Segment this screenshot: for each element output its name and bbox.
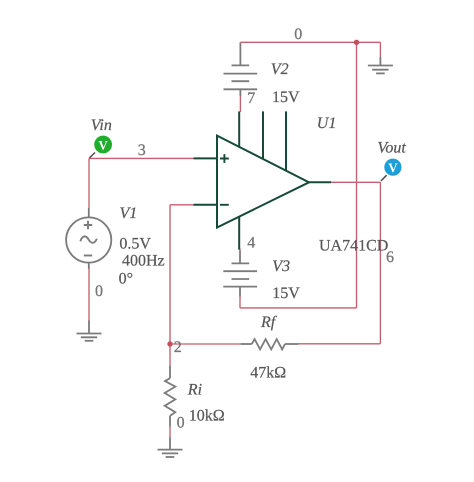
svg-text:U1: U1	[317, 115, 337, 132]
svg-text:15V: 15V	[272, 89, 300, 106]
resistor Ri	[165, 366, 176, 427]
svg-text:Ri: Ri	[187, 381, 202, 398]
probe Vout pointer	[381, 175, 387, 181]
svg-text:Vout: Vout	[377, 139, 406, 156]
probe Vout	[384, 159, 401, 176]
svg-text:Rf: Rf	[260, 314, 278, 331]
wire net 0 stub to top-right ground	[379, 42, 381, 58]
svg-text:V1: V1	[120, 205, 138, 222]
wire net 3 horizontal Vin to op-amp	[89, 157, 194, 159]
svg-text:0: 0	[294, 26, 302, 43]
wire net 2 vertical down	[169, 205, 171, 344]
svg-text:0: 0	[177, 415, 185, 432]
wire net 0 top horizontal	[240, 41, 380, 43]
svg-text:2: 2	[174, 339, 182, 356]
wire net 7 V2 to pin 7	[239, 95, 241, 112]
wire net 6 horizontal to Rf right	[298, 343, 380, 345]
battery V2	[224, 42, 258, 96]
wire net 6 vertical down	[379, 182, 381, 343]
wire net 2 from inverting input	[170, 204, 194, 206]
svg-text:47kΩ: 47kΩ	[250, 365, 286, 382]
svg-text:UA741CD: UA741CD	[319, 237, 388, 254]
probe Vin pointer	[90, 153, 96, 158]
wire net 4 pin 4 to V3	[239, 249, 241, 252]
svg-text:400Hz: 400Hz	[122, 252, 165, 269]
svg-text:V: V	[388, 160, 398, 175]
junction node 0	[354, 40, 359, 45]
wire net 0 Ri bottom to ground	[169, 426, 171, 439]
junction node 2	[167, 341, 172, 346]
op-amp U1	[194, 111, 332, 249]
wire net 0 V3 bottom riser	[239, 296, 241, 308]
svg-text:15V: 15V	[272, 285, 300, 302]
wire net 0 V1 bottom to ground	[88, 268, 90, 322]
wire net 6 output horizontal	[331, 181, 380, 183]
svg-text:3: 3	[138, 142, 146, 159]
wire net 2 down to Ri	[169, 344, 171, 367]
svg-text:7: 7	[247, 90, 255, 107]
svg-text:0.5V: 0.5V	[119, 235, 151, 252]
probe Vin	[94, 136, 112, 154]
svg-text:4: 4	[247, 235, 255, 252]
svg-text:Vin: Vin	[91, 117, 112, 134]
svg-text:10kΩ: 10kΩ	[189, 407, 225, 424]
svg-text:0°: 0°	[119, 271, 133, 288]
wire net 0 horizontal to V3 bottom	[240, 307, 357, 309]
battery V3	[223, 251, 257, 297]
ground under V1	[77, 321, 102, 341]
svg-text:V3: V3	[272, 258, 290, 275]
wire net 0 vertical from junction down	[356, 42, 358, 308]
wire net 3 vertical to V1	[88, 158, 90, 208]
resistor Rf	[240, 339, 298, 349]
wire net 2 horizontal to Rf	[170, 343, 240, 345]
AC source V1	[66, 208, 111, 269]
ground under Ri	[158, 438, 183, 458]
svg-text:V: V	[98, 138, 108, 153]
svg-text:0: 0	[95, 283, 103, 300]
svg-text:V2: V2	[271, 61, 289, 78]
ground top right	[368, 57, 393, 73]
